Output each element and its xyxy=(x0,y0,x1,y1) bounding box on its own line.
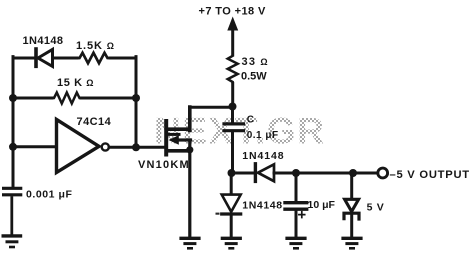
capacitor C1 bottom lead xyxy=(231,132,234,173)
svg-text:VN10KM: VN10KM xyxy=(138,159,190,171)
svg-text:5 V: 5 V xyxy=(367,202,385,214)
ground G1 (0.001uF) xyxy=(2,236,23,247)
diode D2 1N4148 cathode bar xyxy=(254,164,257,182)
diode D1 1N4148 triangle xyxy=(38,49,53,66)
svg-text:1N4148: 1N4148 xyxy=(23,35,64,47)
junction dot left 15K xyxy=(9,94,17,102)
junction dot source-substrate xyxy=(186,146,193,153)
junction dot rail at C bottom xyxy=(228,169,236,177)
speck near clamp diode xyxy=(216,213,220,215)
svg-text:0.1 μF: 0.1 μF xyxy=(247,130,279,141)
ground G3 (clamp diode) xyxy=(221,238,242,248)
capacitor C3 bottom lead xyxy=(295,211,298,238)
zener D4 5V top lead xyxy=(350,174,353,199)
svg-text:0.5W: 0.5W xyxy=(241,71,267,83)
svg-text:–5 V OUTPUT: –5 V OUTPUT xyxy=(390,169,470,181)
transistor Q1 substrate lead xyxy=(179,138,191,141)
wire left vertical rail xyxy=(12,57,15,188)
wire top rail right segment xyxy=(110,57,136,60)
capacitor C1 0.1uF top lead xyxy=(231,107,234,123)
wire right feedback vertical xyxy=(135,57,138,148)
svg-text:33 Ω: 33 Ω xyxy=(242,56,269,68)
capacitor C3 10uF top lead xyxy=(295,174,298,201)
wire output rail left xyxy=(232,172,254,175)
junction dot feedback output xyxy=(132,143,140,151)
zener D4 triangle xyxy=(345,199,359,211)
wire drain to supply node xyxy=(190,106,233,109)
power arrowhead xyxy=(227,17,238,31)
resistor R3 33 ohm zigzag xyxy=(228,55,238,83)
capacitor C3 plate bottom xyxy=(285,207,307,210)
resistor R2 15K zigzag xyxy=(52,93,81,104)
capacitor C2 0.001uF plates xyxy=(2,188,22,235)
zener D4 bottom lead xyxy=(350,214,353,237)
svg-text:+7 TO +18 V: +7 TO +18 V xyxy=(199,5,266,17)
capacitor C3 plus sign xyxy=(299,212,305,218)
ground G5 (zener) xyxy=(341,238,362,248)
junction dot rail at 10uF xyxy=(292,169,300,177)
transistor Q1 VN10KM body bar xyxy=(164,121,168,155)
ground G4 (10uF) xyxy=(285,238,306,248)
power arrow up xyxy=(231,28,234,55)
wire inverter output to gate xyxy=(109,146,164,149)
svg-text:74C14: 74C14 xyxy=(77,116,112,128)
diode D3 cathode bar xyxy=(222,212,241,215)
capacitor C1 plate bottom xyxy=(224,129,244,132)
junction dot rail at zener xyxy=(349,169,357,177)
op-amp U1 output bubble xyxy=(102,143,109,150)
svg-text:15 K Ω: 15 K Ω xyxy=(57,77,94,89)
diode D3 1N4148 triangle xyxy=(222,195,241,212)
svg-text:1N4148: 1N4148 xyxy=(242,199,282,211)
wire 15K rail xyxy=(13,97,136,100)
wire output rail right xyxy=(274,172,378,175)
transistor Q1 drain lead xyxy=(167,107,190,131)
diode D1 1N4148 cathode bar xyxy=(34,49,38,66)
transistor Q1 source lead xyxy=(167,149,190,153)
ground G2 (source) xyxy=(179,238,200,248)
wire top rail middle segment xyxy=(53,57,78,60)
transistor Q1 substrate arrow xyxy=(169,135,179,145)
diode D3 bottom lead xyxy=(230,216,233,238)
op-amp U1 74C14 triangle xyxy=(57,120,100,173)
output terminal circle xyxy=(378,168,388,178)
zener D4 bar xyxy=(344,213,359,219)
transistor Q1 channel dash xyxy=(169,133,179,136)
wire top rail left segment xyxy=(13,57,34,60)
resistor R1 1.5K zigzag xyxy=(77,53,110,63)
svg-text:1.5K Ω: 1.5K Ω xyxy=(76,40,115,52)
junction dot right 15K xyxy=(132,94,140,102)
svg-text:10 μF: 10 μF xyxy=(308,199,336,211)
wire source to ground xyxy=(188,140,191,237)
capacitor C3 plate top xyxy=(285,201,307,204)
wire 33ohm to node xyxy=(231,84,234,107)
capacitor C2 bottom lead xyxy=(10,196,13,235)
svg-text:0.001 μF: 0.001 μF xyxy=(26,189,72,201)
wire inverter input xyxy=(13,145,55,148)
diode D3 1N4148 clamp top lead xyxy=(230,174,233,194)
junction dot left input xyxy=(9,143,17,151)
diode D2 1N4148 triangle xyxy=(258,164,274,181)
svg-text:1N4148: 1N4148 xyxy=(242,150,284,162)
svg-text:C: C xyxy=(247,115,254,126)
junction dot supply node xyxy=(229,103,237,111)
capacitor C1 plate top xyxy=(224,122,244,125)
